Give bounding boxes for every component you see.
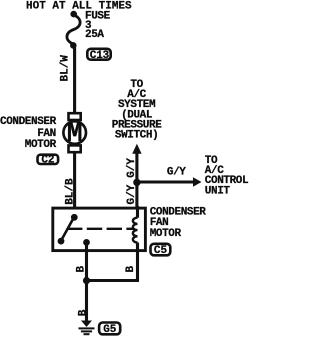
svg-text:BL/W: BL/W [60,55,72,82]
fuse F (FUSE 3 25A) [67,15,80,44]
motor M1 terminal top [69,113,81,120]
svg-text:HOT AT ALL TIMES: HOT AT ALL TIMES [26,0,132,12]
svg-text:G/Y: G/Y [126,158,138,178]
wire BL/W (fuse to motor) [73,47,76,114]
relay mechanical link (dashed) [67,228,134,230]
relay switch contact top [71,214,78,221]
svg-text:B: B [76,266,88,273]
relay switch blade [62,219,73,239]
wire B horizontal (to junction) [86,279,139,282]
arrow right to A/C control unit [193,177,202,186]
svg-text:MOTOR: MOTOR [150,228,182,240]
svg-text:BL/B: BL/B [65,178,77,205]
arrow up to A/C system [132,144,141,154]
wire G/Y down (junction to relay) [135,182,138,208]
relay coil wire top [136,206,139,218]
wire B left (switch to ground junction) [85,243,88,281]
svg-text:25A: 25A [85,29,104,41]
svg-text:CONDENSER: CONDENSER [0,116,57,128]
connector C2 [38,154,59,166]
svg-text:G/Y: G/Y [167,167,186,179]
motor M1 terminal bottom [69,145,81,152]
relay switch contact lower-left [58,238,65,245]
svg-text:C5: C5 [154,245,168,257]
svg-text:C2: C2 [41,154,54,166]
wire G/Y right (junction to A/C control unit) [137,180,194,183]
svg-text:UNIT: UNIT [205,185,231,197]
svg-text:SWITCH): SWITCH) [115,130,158,142]
connector C13 [87,49,110,62]
relay coil wire bottom [136,243,139,253]
svg-text:B: B [125,266,137,273]
svg-text:FAN: FAN [37,128,56,140]
svg-text:G5: G5 [103,324,117,336]
ground G5 symbol [79,321,95,335]
svg-text:B: B [77,309,89,316]
wire B right (coil down) [136,251,139,281]
svg-text:C13: C13 [90,50,110,62]
wire G/Y up (junction to arrow) [135,152,138,183]
node ground junction [83,277,90,284]
connector C5 [151,244,171,257]
relay coil [133,218,138,243]
connector G5 [99,323,120,337]
svg-text:G/Y: G/Y [126,184,138,204]
motor M1 (condenser fan motor) [63,121,86,144]
wire B down (junction to ground) [85,281,88,322]
wire BL/B (motor to relay) [73,152,76,208]
svg-text:MOTOR: MOTOR [25,139,57,151]
relay K1 box (condenser fan motor relay) [53,208,146,251]
node junction G/Y [133,179,140,186]
relay switch output contact [83,239,90,246]
